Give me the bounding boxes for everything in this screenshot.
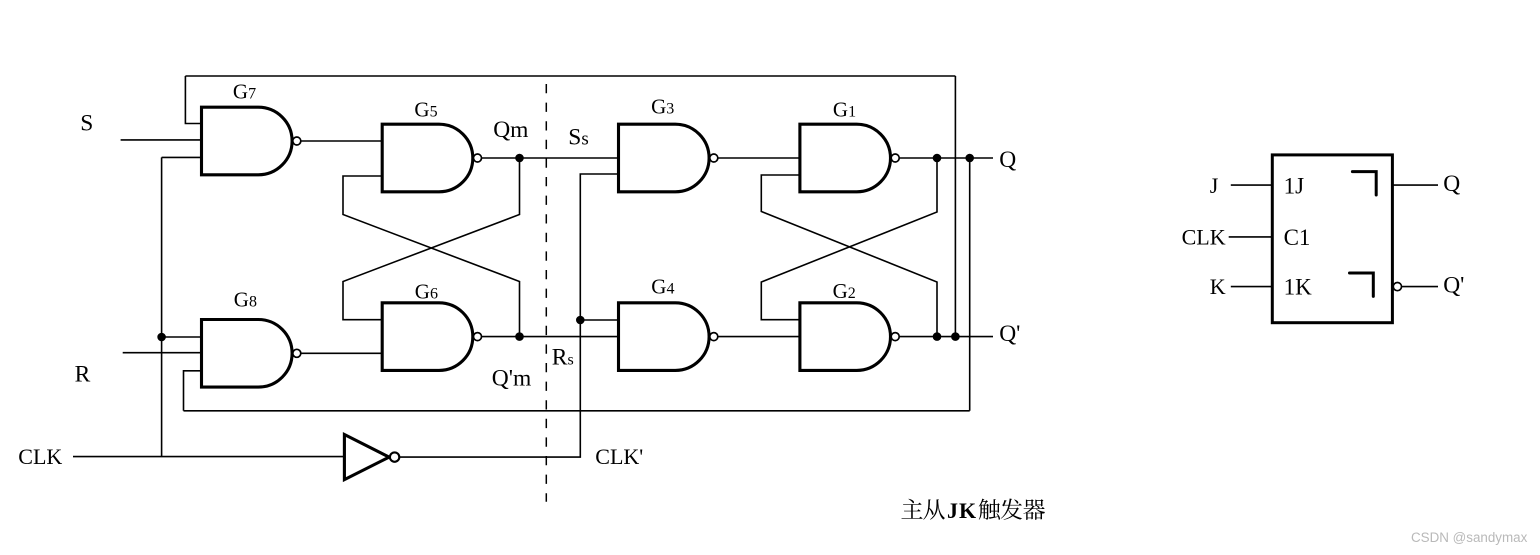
node Q'm junction	[515, 332, 524, 341]
svg-text:R: R	[75, 361, 91, 387]
wire G8 output to G6	[301, 352, 384, 354]
svg-text:Rs: Rs	[552, 345, 574, 371]
svg-text:CLK: CLK	[18, 444, 62, 469]
svg-text:1J: 1J	[1284, 174, 1305, 199]
svg-text:Q: Q	[999, 147, 1016, 173]
U1 pin wire K	[1231, 286, 1273, 288]
G8 output bubble	[293, 349, 301, 357]
svg-text:Q': Q'	[1443, 272, 1464, 298]
svg-text:JK: JK	[947, 498, 977, 523]
svg-text:Q': Q'	[999, 321, 1020, 347]
wire master cross-coupling Qm to G6	[343, 158, 520, 320]
NAND gate G4	[619, 303, 710, 371]
svg-text:G7: G7	[233, 80, 256, 104]
G1 output bubble	[891, 154, 899, 162]
G5 output bubble	[474, 154, 482, 162]
U1 pin wire CLK	[1229, 236, 1273, 238]
svg-text:G1: G1	[833, 97, 856, 121]
NAND gate G6	[382, 303, 473, 371]
NAND gate G2	[800, 303, 891, 371]
wire G3 output to G1	[718, 157, 802, 159]
dashed divider master/slave	[545, 84, 547, 502]
node Q line junction (feedback)	[965, 154, 974, 163]
wire S input	[121, 139, 204, 141]
node CLK branch junction at G8	[157, 333, 166, 342]
svg-text:G3: G3	[651, 95, 674, 119]
G6 output bubble	[474, 333, 482, 341]
wire Q'm / Rs line (G6 out to G4)	[482, 336, 621, 338]
U1 pin wire Q	[1392, 184, 1438, 186]
node Q line junction (cross-coupling)	[933, 154, 942, 163]
wire G7 output to G5	[301, 140, 384, 142]
wire bottom feedback (Q to G8)	[184, 158, 970, 411]
svg-text:S: S	[80, 110, 93, 136]
wire G4 output to G2	[718, 336, 802, 338]
U1 polarity mark top	[1352, 172, 1376, 195]
svg-text:1K: 1K	[1284, 275, 1313, 300]
U1 output bubble Q'	[1393, 283, 1401, 291]
wire CLK' (inverter out, up to G3/G4)	[399, 174, 620, 457]
inverter CLK	[344, 435, 389, 480]
wire master cross-coupling G5 lower input to Q'm	[343, 176, 520, 337]
U1 pin wire J	[1231, 184, 1273, 186]
svg-text:G6: G6	[415, 280, 438, 304]
JK flip-flop symbol U1 box	[1272, 155, 1392, 323]
node CLK' junction at G4	[576, 316, 585, 325]
wire Qm / Ss line (G5 out to G3)	[482, 157, 621, 159]
node Qm junction	[515, 154, 524, 163]
node Q' line junction (feedback)	[951, 332, 960, 341]
G7 output bubble	[293, 137, 301, 145]
wire slave cross-coupling Q to G2	[761, 158, 937, 320]
svg-text:G8: G8	[234, 288, 257, 312]
svg-text:G2: G2	[833, 279, 856, 303]
svg-text:Q'm: Q'm	[492, 366, 531, 392]
svg-text:Qm: Qm	[493, 117, 528, 143]
svg-text:Q: Q	[1443, 171, 1460, 197]
U1 pin wire Q'	[1402, 286, 1438, 288]
U1 polarity mark bottom	[1350, 273, 1374, 296]
G3 output bubble	[710, 154, 718, 162]
NAND gate G8	[202, 320, 293, 388]
svg-text:G5: G5	[414, 97, 437, 121]
G4 output bubble	[710, 333, 718, 341]
svg-text:CLK: CLK	[1182, 224, 1226, 249]
wire Q output line	[899, 157, 993, 159]
NAND gate G7	[202, 107, 293, 175]
NAND gate G5	[382, 124, 473, 192]
svg-text:J: J	[1210, 173, 1219, 198]
wire top feedback (Q' to G7)	[185, 76, 955, 337]
svg-text:G4: G4	[651, 275, 674, 299]
svg-text:K: K	[1210, 274, 1226, 299]
NAND gate G3	[619, 124, 710, 192]
G2 output bubble	[891, 333, 899, 341]
inverter output bubble	[390, 452, 399, 461]
wire CLK branch vertical to G7/G8	[162, 157, 204, 456]
NAND gate G1	[800, 124, 891, 192]
svg-text:CSDN @sandymax: CSDN @sandymax	[1411, 530, 1528, 545]
wire CLK input	[73, 456, 344, 458]
wire R input	[123, 352, 204, 354]
svg-text:Ss: Ss	[568, 125, 588, 151]
wire slave cross-coupling G1 lower input to Q'	[761, 175, 937, 337]
wire Q' output line	[899, 336, 993, 338]
caption text 主从JK触发器	[901, 499, 1045, 520]
svg-text:CLK': CLK'	[595, 444, 643, 469]
svg-text:C1: C1	[1284, 225, 1311, 250]
node Q' line junction (cross-coupling)	[933, 332, 942, 341]
